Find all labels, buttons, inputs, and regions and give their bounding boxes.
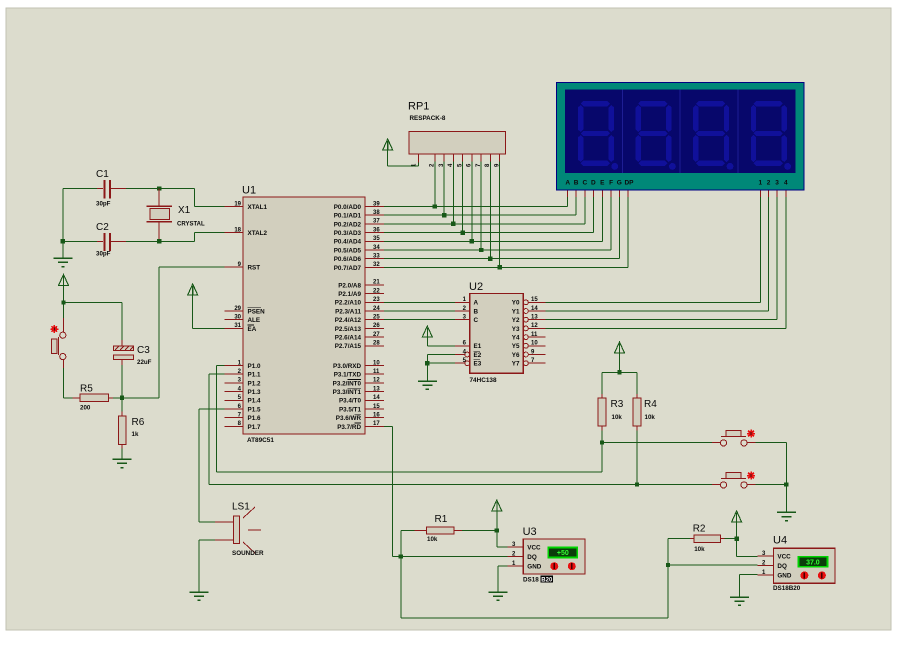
wire key2 left xyxy=(637,484,712,486)
wire P1.1 to key row 2 xyxy=(209,374,637,484)
resistor R1 10k xyxy=(415,514,462,543)
junction E3 rail xyxy=(425,361,429,365)
svg-text:P3.1/TXD: P3.1/TXD xyxy=(334,372,362,379)
U1 pin 6 P1.5 xyxy=(225,404,261,414)
U2 pin 9 Y6 xyxy=(512,349,546,359)
svg-text:P2.7/A15: P2.7/A15 xyxy=(335,343,362,350)
svg-text:Y6: Y6 xyxy=(512,352,520,359)
wire U4 GND to ground xyxy=(740,574,758,596)
ground for U2 enables xyxy=(418,381,437,389)
junction R3 bottom key row 1 xyxy=(600,440,604,444)
wire power to U2 E1 xyxy=(427,345,455,347)
wire key row1 vertical link xyxy=(601,443,603,473)
svg-text:P0.6/AD6: P0.6/AD6 xyxy=(334,256,362,263)
svg-text:R6: R6 xyxy=(132,417,145,428)
U1 pin 11 P3.1/TXD xyxy=(334,369,384,379)
svg-text:E2: E2 xyxy=(474,352,482,359)
wire reset-top to C3 column xyxy=(64,302,123,304)
svg-text:21: 21 xyxy=(373,280,380,286)
svg-text:31: 31 xyxy=(234,323,241,329)
wire P0.5 row to display segment xyxy=(384,197,611,250)
junction DQ2 node xyxy=(666,563,670,567)
decoder U2 74HC138 body xyxy=(469,281,523,384)
U1 pin 22 P2.1/A9 xyxy=(338,288,384,298)
svg-text:P1.5: P1.5 xyxy=(248,406,261,413)
wire DQ2 to U4 DQ xyxy=(668,564,758,566)
U1 pin 23 P2.2/A10 xyxy=(335,297,384,307)
svg-text:RST: RST xyxy=(248,264,261,271)
svg-text:VCC: VCC xyxy=(777,554,791,561)
wire DQ1 to U3 DQ xyxy=(401,556,508,558)
svg-text:R3: R3 xyxy=(611,399,624,410)
display 4-digit 7-segment block xyxy=(557,83,805,191)
svg-text:12: 12 xyxy=(531,323,538,329)
svg-text:P0.7/AD7: P0.7/AD7 xyxy=(334,265,362,272)
svg-text:C3: C3 xyxy=(137,345,150,356)
svg-text:DS18: DS18 xyxy=(523,577,539,584)
wire R1 right to VCC node xyxy=(462,530,497,532)
junction R1 VCC node xyxy=(495,528,499,532)
svg-text:200: 200 xyxy=(80,405,91,412)
wire RP1 pin 6 drop xyxy=(471,162,473,242)
U2 pin 3 C xyxy=(455,315,479,325)
node reset-top junction xyxy=(61,300,65,304)
wire RP1 pin 9 drop xyxy=(499,162,501,268)
svg-text:A: A xyxy=(474,300,479,307)
node RSTN junction xyxy=(120,396,124,400)
svg-text:74HC138: 74HC138 xyxy=(470,377,497,384)
svg-text:23: 23 xyxy=(373,297,380,303)
wire VCC node to U3 VCC xyxy=(497,531,508,548)
svg-text:CRYSTAL: CRYSTAL xyxy=(177,222,205,228)
svg-text:P1.6: P1.6 xyxy=(248,415,261,422)
svg-text:Y4: Y4 xyxy=(512,335,520,342)
U1 pin 4 P1.3 xyxy=(225,386,261,396)
svg-text:B20: B20 xyxy=(541,577,553,583)
U1 pin 5 P1.4 xyxy=(225,395,261,405)
svg-text:Y5: Y5 xyxy=(512,343,520,350)
svg-text:B: B xyxy=(474,308,479,315)
U2 pin 11 Y4 xyxy=(512,332,546,342)
power symbol VCC U3 xyxy=(492,500,502,531)
ground for sounder xyxy=(190,592,209,600)
wire P2.3 to U2 xyxy=(384,310,455,312)
wire keys to ground xyxy=(785,485,787,512)
svg-text:D: D xyxy=(591,180,596,187)
svg-text:16: 16 xyxy=(373,413,380,419)
wire key2 right xyxy=(756,484,787,486)
junction RP1 pin 5 on P0.3 row xyxy=(460,230,464,234)
push button reset xyxy=(51,325,66,360)
svg-text:P0.2/AD2: P0.2/AD2 xyxy=(334,221,362,228)
wire RP1 pin 3 drop xyxy=(443,162,445,216)
svg-text:P0.3/AD3: P0.3/AD3 xyxy=(334,230,362,237)
svg-text:G: G xyxy=(617,180,622,187)
resistor R5 200 xyxy=(73,384,113,412)
wire P2.4 to U2 xyxy=(384,319,455,321)
svg-text:P2.5/A13: P2.5/A13 xyxy=(335,326,362,333)
resistor R2 10k xyxy=(668,524,725,554)
svg-text:C1: C1 xyxy=(96,169,109,180)
svg-text:A: A xyxy=(565,180,570,187)
resistor pack RP1 RESPACK-8 body xyxy=(408,101,506,168)
svg-text:P3.5/T1: P3.5/T1 xyxy=(339,406,362,413)
svg-text:17: 17 xyxy=(373,421,380,427)
display digit 4 ghost segments xyxy=(751,101,791,170)
junction R2 VCC node xyxy=(734,536,738,540)
U1 pin 36 P0.3/AD3 xyxy=(334,227,384,237)
U1 pin 16 P3.6/WR xyxy=(336,413,384,423)
power symbol VCC U2 E1 xyxy=(422,326,432,346)
svg-text:15: 15 xyxy=(373,404,380,410)
wire C2 right to node XT2 xyxy=(126,240,159,242)
ground for U4 xyxy=(730,597,749,605)
power symbol VCC reset xyxy=(59,275,69,303)
power symbol VCC EA xyxy=(188,284,198,328)
wire to U1 EA pin 31 xyxy=(193,327,225,329)
svg-text:R2: R2 xyxy=(693,524,706,535)
U1 pin 19 XTAL1 xyxy=(225,201,268,211)
svg-text:30pF: 30pF xyxy=(96,251,111,258)
svg-text:27: 27 xyxy=(373,332,380,338)
junction RP1 pin 8 on P0.6 row xyxy=(488,257,492,261)
svg-text:38: 38 xyxy=(373,210,380,216)
svg-text:Y1: Y1 xyxy=(512,308,520,315)
capacitor C2 xyxy=(96,222,126,258)
wire U2 Y2 to display digit 3 xyxy=(546,197,778,320)
sounder LS1 xyxy=(232,502,264,558)
wire U2 Y3 to display digit 4 xyxy=(546,197,786,328)
svg-text:1: 1 xyxy=(758,180,762,187)
U1 pin 30 ALE xyxy=(225,315,261,325)
power symbol VCC U4 xyxy=(732,511,742,539)
svg-text:RESPACK-8: RESPACK-8 xyxy=(410,115,446,122)
svg-text:3: 3 xyxy=(775,180,779,187)
svg-text:P3.3/INT1: P3.3/INT1 xyxy=(333,389,362,396)
svg-text:P0.1/AD1: P0.1/AD1 xyxy=(334,213,362,220)
junction RP1 pin 9 on P0.7 row xyxy=(497,265,501,269)
mcu U1 AT89C51 body xyxy=(242,185,365,445)
svg-text:F: F xyxy=(609,180,613,187)
U1 pin 27 P2.6/A14 xyxy=(335,332,384,342)
svg-text:P1.3: P1.3 xyxy=(248,389,261,396)
power symbol VCC RP1 xyxy=(383,139,393,166)
display segment letters label xyxy=(565,180,634,187)
svg-text:XTAL1: XTAL1 xyxy=(248,204,268,211)
svg-text:Y2: Y2 xyxy=(512,317,520,324)
wire P0.4 row to display segment xyxy=(384,197,602,241)
wire into reset button xyxy=(62,303,64,332)
svg-text:P3.4/T0: P3.4/T0 xyxy=(339,398,362,405)
display digit 3 ghost segments xyxy=(693,101,733,170)
svg-text:P3.2/INT0: P3.2/INT0 xyxy=(333,380,362,387)
U1 pin 10 P3.0/RXD xyxy=(333,360,384,370)
resistor R3 10k xyxy=(598,372,624,442)
junction DQ1 node xyxy=(399,554,403,558)
U1 pin 13 P3.3/INT1 xyxy=(333,386,384,396)
svg-text:Y7: Y7 xyxy=(512,361,520,368)
wire P2.2 to U2 xyxy=(384,301,455,303)
svg-text:C2: C2 xyxy=(96,222,109,233)
ground for keys xyxy=(777,512,796,520)
junction RP1 pin 6 on P0.4 row xyxy=(470,239,474,243)
U1 pin 12 P3.2/INT0 xyxy=(333,378,384,388)
svg-text:37.0: 37.0 xyxy=(806,559,820,566)
wire P0.1 row to display segment xyxy=(384,197,576,215)
wire caps left vertical rail xyxy=(62,189,64,258)
wire R3 R4 top rail xyxy=(602,371,637,373)
power symbol VCC keys xyxy=(615,342,625,372)
display digit 2 ghost segments xyxy=(636,101,676,170)
svg-text:P1.0: P1.0 xyxy=(248,363,261,370)
wire key1 left xyxy=(602,442,712,444)
svg-text:P0.5/AD5: P0.5/AD5 xyxy=(334,247,362,254)
junction caps rail at C2 xyxy=(61,239,65,243)
U1 pin 1 P1.0 xyxy=(225,360,261,370)
capacitor C1 xyxy=(96,169,126,208)
svg-text:22: 22 xyxy=(373,288,380,294)
svg-text:VCC: VCC xyxy=(527,544,541,551)
svg-text:36: 36 xyxy=(373,227,380,233)
node XT2 junction xyxy=(157,239,161,243)
U1 pin 21 P2.0/A8 xyxy=(338,280,384,290)
wire RP1 pin 5 drop xyxy=(462,162,464,233)
svg-text:2: 2 xyxy=(767,180,771,187)
svg-text:AT89C51: AT89C51 xyxy=(247,437,274,444)
svg-text:11: 11 xyxy=(531,332,538,338)
U1 pin 26 P2.5/A13 xyxy=(335,323,384,333)
svg-text:10: 10 xyxy=(531,341,538,347)
wire R2 rail vertical xyxy=(667,539,669,618)
U2 pin 6 E1 xyxy=(455,341,482,351)
svg-text:14: 14 xyxy=(373,395,380,401)
U2 pin 2 B xyxy=(455,306,479,316)
wire C1 left to ground rail xyxy=(63,188,97,190)
svg-text:E: E xyxy=(600,180,605,187)
svg-text:RP1: RP1 xyxy=(408,101,429,113)
wire C2 left xyxy=(63,240,97,242)
wire P0.3 row to display segment xyxy=(384,197,593,232)
wire VCC node to U4 VCC xyxy=(737,539,758,557)
resistor R6 1k xyxy=(118,398,144,459)
svg-text:P2.1/A9: P2.1/A9 xyxy=(338,291,361,298)
svg-text:C: C xyxy=(474,317,479,324)
wire U2 Y1 to display digit 2 xyxy=(546,197,769,311)
U1 pin 3 P1.2 xyxy=(225,378,261,388)
U1 pin 8 P1.7 xyxy=(225,421,261,431)
svg-text:EA: EA xyxy=(248,326,257,333)
svg-text:X1: X1 xyxy=(178,205,191,216)
U1 pin 34 P0.5/AD5 xyxy=(334,245,384,255)
U1 pin 15 P3.5/T1 xyxy=(339,404,384,414)
svg-text:P3.6/WR: P3.6/WR xyxy=(336,415,362,422)
svg-text:4: 4 xyxy=(784,180,788,187)
junction RP1 pin 4 on P0.2 row xyxy=(451,222,455,226)
svg-text:10: 10 xyxy=(373,360,380,366)
capacitor C3 22uF xyxy=(114,303,152,398)
svg-text:P3.7/RD: P3.7/RD xyxy=(337,424,361,431)
display segment pins xyxy=(568,190,628,197)
wire U3 GND to ground xyxy=(498,566,508,592)
wire P0.7 row to display segment xyxy=(384,197,628,267)
ground for U3 xyxy=(489,592,508,600)
wire RP1 pin 1 to power xyxy=(388,163,419,166)
svg-text:26: 26 xyxy=(373,323,380,329)
wire node RSTN to U1 RST pin 9 xyxy=(122,267,225,398)
wire R5 right to node RSTN xyxy=(113,397,122,399)
svg-text:DQ: DQ xyxy=(777,563,787,570)
wire P1.5 to sounder xyxy=(199,409,233,522)
U1 pin 9 RST xyxy=(225,262,261,272)
svg-text:10k: 10k xyxy=(694,546,705,553)
svg-text:DQ: DQ xyxy=(527,554,537,561)
U1 pin 29 PSEN xyxy=(225,306,266,316)
U2 pin 12 Y3 xyxy=(512,323,546,333)
svg-text:U1: U1 xyxy=(242,185,256,197)
U2 pin 13 Y2 xyxy=(512,315,546,325)
U1 pin 39 P0.0/AD0 xyxy=(334,201,384,211)
svg-text:29: 29 xyxy=(234,306,241,312)
svg-text:R5: R5 xyxy=(80,384,93,395)
svg-text:12: 12 xyxy=(373,378,380,384)
wire RP1 pin 2 drop xyxy=(434,162,436,207)
wire P3.7 down to DQ node xyxy=(384,426,401,556)
svg-text:P2.0/A8: P2.0/A8 xyxy=(338,282,361,289)
U1 pin 38 P0.1/AD1 xyxy=(334,210,384,220)
svg-text:18: 18 xyxy=(234,227,241,233)
wire C1 right to node XT1 xyxy=(126,188,159,190)
svg-text:33: 33 xyxy=(373,254,380,260)
svg-text:28: 28 xyxy=(373,341,380,347)
svg-text:XTAL2: XTAL2 xyxy=(248,230,268,237)
svg-text:19: 19 xyxy=(234,201,241,207)
svg-text:30pF: 30pF xyxy=(96,201,111,208)
svg-text:GND: GND xyxy=(777,573,791,580)
U1 pin 28 P2.7/A15 xyxy=(335,341,384,351)
wire key1 right down xyxy=(756,443,787,485)
wire DQ1 node vertical xyxy=(400,531,402,618)
U1 pin 7 P1.6 xyxy=(225,413,261,423)
wire bottom DQ rail xyxy=(401,617,668,619)
resistor R4 10k xyxy=(633,372,657,484)
svg-text:24: 24 xyxy=(373,306,380,312)
U2 pin 15 Y0 xyxy=(512,297,546,307)
svg-text:P2.6/A14: P2.6/A14 xyxy=(335,335,362,342)
U1 pin 35 P0.4/AD4 xyxy=(334,236,384,246)
svg-text:P0.0/AD0: P0.0/AD0 xyxy=(334,204,362,211)
U1 pin 37 P0.2/AD2 xyxy=(334,219,384,229)
svg-text:25: 25 xyxy=(373,315,380,321)
svg-text:P2.3/A11: P2.3/A11 xyxy=(335,308,361,315)
junction keys ground rail xyxy=(784,482,788,486)
svg-text:35: 35 xyxy=(373,236,380,242)
wire RP1 pin 7 drop xyxy=(480,162,482,251)
svg-text:Y3: Y3 xyxy=(512,326,520,333)
push button key1 xyxy=(712,430,756,446)
wire sounder bottom to ground xyxy=(199,540,233,592)
U1 pin 32 P0.7/AD7 xyxy=(334,262,384,272)
svg-text:P1.7: P1.7 xyxy=(248,424,261,431)
svg-text:37: 37 xyxy=(373,219,380,225)
wire U2 E2 E3 to ground xyxy=(427,355,455,381)
svg-text:GND: GND xyxy=(527,563,541,570)
svg-text:P2.4/A12: P2.4/A12 xyxy=(335,317,362,324)
svg-text:DP: DP xyxy=(624,180,634,187)
sensor U4 DS18B20 xyxy=(758,535,836,592)
display digit pins xyxy=(760,190,786,197)
svg-text:+50: +50 xyxy=(557,550,569,557)
wire node XT2 to U1 pin 18 xyxy=(159,233,224,242)
ground for C1 C2 xyxy=(53,258,72,266)
wire P1.0 to key row 1 xyxy=(217,366,602,473)
svg-text:10k: 10k xyxy=(612,414,623,421)
U2 pin 7 Y7 xyxy=(512,358,546,368)
svg-text:13: 13 xyxy=(373,386,380,392)
svg-text:P1.1: P1.1 xyxy=(248,372,261,379)
display digit number labels xyxy=(758,180,788,187)
U1 pin 25 P2.4/A12 xyxy=(335,315,384,325)
U1 pin 17 P3.7/RD xyxy=(337,421,384,431)
wire RP1 pin 8 drop xyxy=(489,162,491,259)
svg-text:R4: R4 xyxy=(644,399,657,410)
junction R3R4 top xyxy=(617,370,621,374)
node XT1 junction xyxy=(157,186,161,190)
svg-text:U3: U3 xyxy=(523,526,537,538)
svg-text:U4: U4 xyxy=(773,535,787,547)
svg-text:P0.4/AD4: P0.4/AD4 xyxy=(334,239,362,246)
U2 pin 4 E2 xyxy=(455,349,482,359)
U1 pin 31 EA xyxy=(225,323,257,333)
U1 pin 18 XTAL2 xyxy=(225,227,268,237)
svg-text:P2.2/A10: P2.2/A10 xyxy=(335,300,362,307)
svg-text:10k: 10k xyxy=(427,536,438,543)
wire R2 right to VCC node xyxy=(725,538,737,540)
wire reset button bottom to R5 xyxy=(63,360,72,398)
wire U2 Y0 to display digit 1 xyxy=(546,197,761,302)
junction RP1 pin 2 on P0.0 row xyxy=(433,204,437,208)
svg-text:10k: 10k xyxy=(645,414,656,421)
svg-text:B: B xyxy=(574,180,579,187)
U2 pin 14 Y1 xyxy=(512,306,546,316)
wire P0.2 row to display segment xyxy=(384,197,585,224)
svg-text:R1: R1 xyxy=(435,514,448,525)
junction R4 bottom key row 2 xyxy=(635,482,639,486)
junction RP1 pin 7 on P0.5 row xyxy=(479,248,483,252)
U1 pin 14 P3.4/T0 xyxy=(339,395,384,405)
svg-text:DS18B20: DS18B20 xyxy=(773,585,801,592)
U1 pin 2 P1.1 xyxy=(225,369,261,379)
wire P0.0 row to display segment xyxy=(384,197,568,206)
U1 pin 24 P2.3/A11 xyxy=(335,306,384,316)
sensor U3 DS18B20 xyxy=(508,526,586,584)
svg-text:U2: U2 xyxy=(469,281,483,293)
crystal X1 xyxy=(147,189,206,242)
wire P0.6 row to display segment xyxy=(384,197,619,259)
U2 pin 10 Y5 xyxy=(512,341,546,351)
svg-text:14: 14 xyxy=(531,306,538,312)
U2 pin 5 E3 xyxy=(455,358,482,368)
svg-text:32: 32 xyxy=(373,262,380,268)
svg-text:34: 34 xyxy=(373,245,380,251)
svg-text:Y0: Y0 xyxy=(512,300,520,307)
svg-text:1k: 1k xyxy=(132,431,139,438)
svg-text:PSEN: PSEN xyxy=(248,308,266,315)
svg-text:C: C xyxy=(582,180,587,187)
svg-text:13: 13 xyxy=(531,315,538,321)
svg-text:39: 39 xyxy=(373,201,380,207)
svg-text:P1.2: P1.2 xyxy=(248,380,261,387)
svg-text:P1.4: P1.4 xyxy=(248,398,261,405)
